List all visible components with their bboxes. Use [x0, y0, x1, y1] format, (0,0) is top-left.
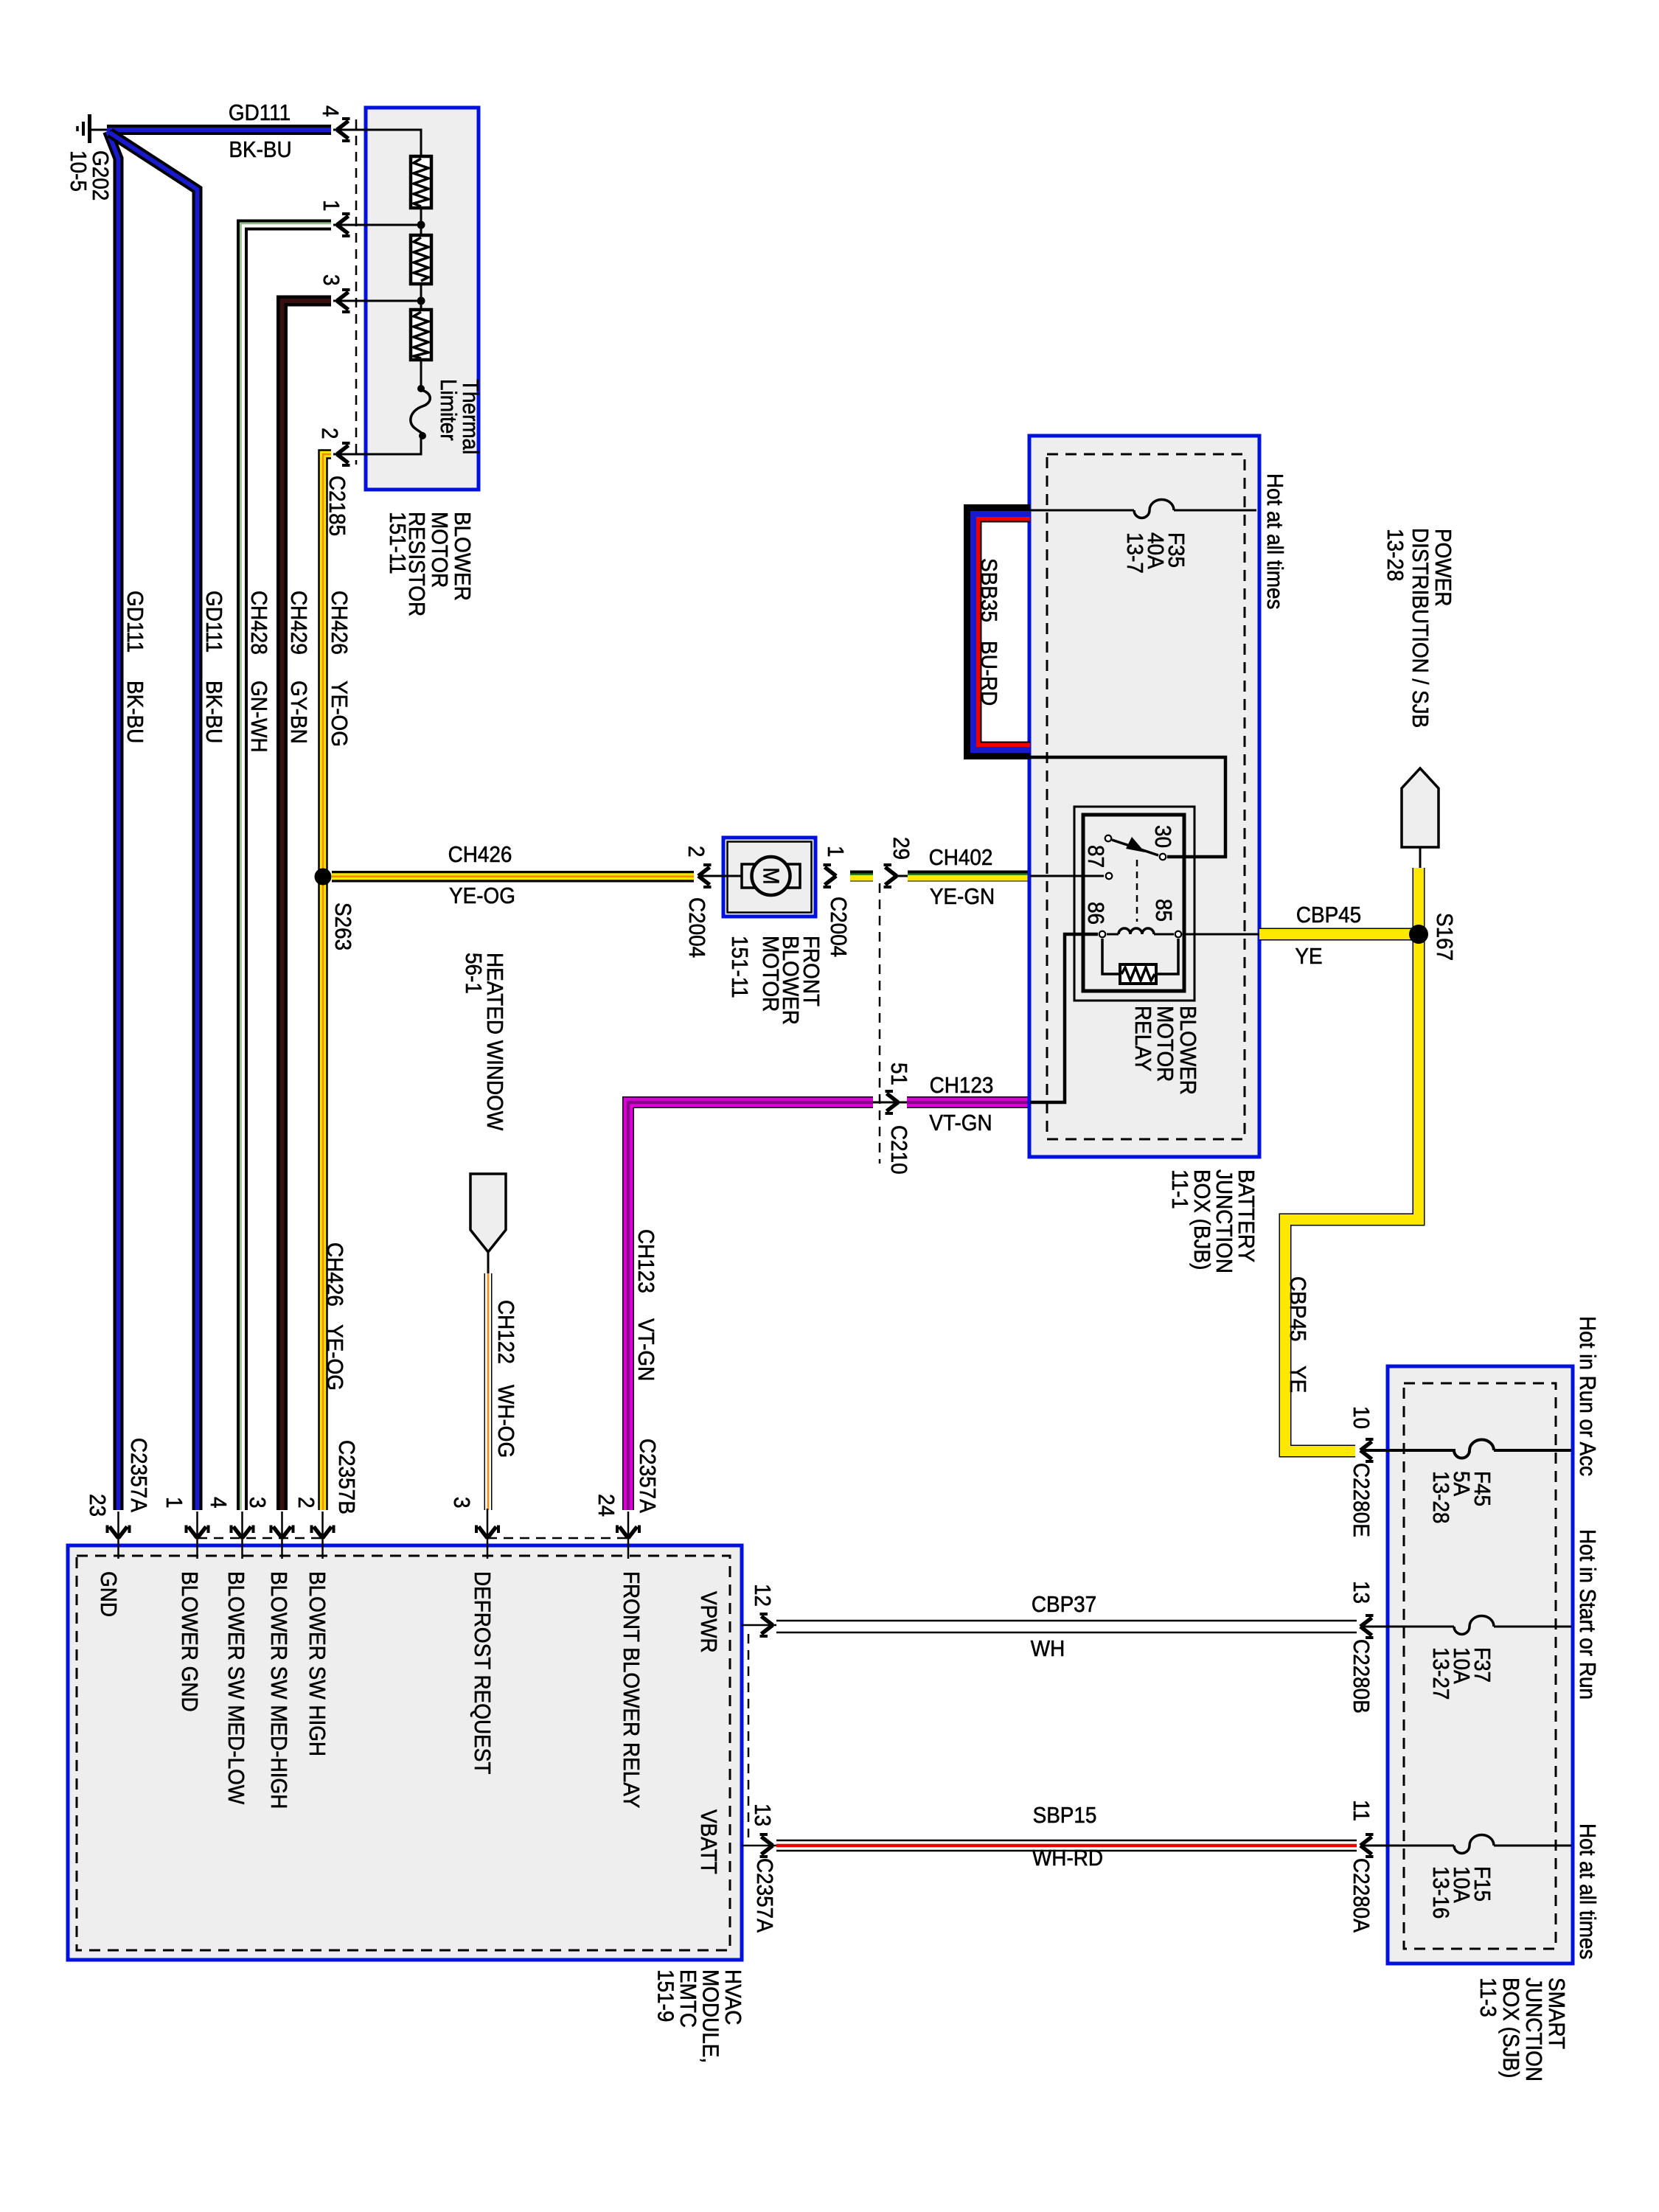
wire CH123 to relay coil 86: [1030, 934, 1098, 1102]
labels along CH123 vertical: [633, 1229, 661, 1513]
svg-text:HVAC: HVAC: [720, 1969, 746, 2025]
svg-text:S263: S263: [330, 902, 356, 950]
motor symbol M: [742, 857, 800, 895]
svg-text:11-3: 11-3: [1475, 1978, 1501, 2017]
HVAC pin 1 arrow BLOWER GND: [187, 1526, 209, 1539]
svg-text:GY-BN: GY-BN: [286, 681, 312, 744]
fuse F35 element: [1134, 500, 1174, 518]
battery junction box BJB: [1029, 436, 1259, 1157]
svg-text:BLOWER: BLOWER: [450, 512, 476, 601]
dashed connector pin3 to pin24: [487, 1537, 628, 1540]
svg-text:C2280B: C2280B: [1349, 1639, 1374, 1714]
HVAC pin 4 arrow BLOWER SW MED-LOW: [232, 1526, 254, 1539]
relay blade-coil dashed link: [1136, 860, 1138, 922]
svg-text:BLOWER SW HIGH: BLOWER SW HIGH: [305, 1571, 330, 1756]
svg-text:151-11: 151-11: [385, 512, 411, 574]
HVAC inner dashed boundary: [77, 1556, 730, 1950]
svg-text:POWER: POWER: [1430, 529, 1456, 606]
svg-text:YE: YE: [1295, 944, 1322, 970]
svg-text:VPWR: VPWR: [696, 1591, 722, 1653]
relay coil: [1107, 928, 1174, 934]
resistor pin 1 arrow and lead: [333, 224, 421, 226]
wire CH428 GN-WH vertical to HVAC pin 4: [241, 223, 332, 1510]
labels CH122 WH-OG: [493, 1300, 519, 1458]
svg-text:Hot in Run or Acc: Hot in Run or Acc: [1575, 1316, 1601, 1476]
power distribution label: [1382, 528, 1456, 728]
svg-text:10: 10: [1349, 1406, 1374, 1429]
resistor element R1: [411, 156, 431, 208]
HVAC pin 2 arrow BLOWER SW HIGH: [312, 1526, 334, 1539]
heated window feed symbol: [470, 1174, 506, 1275]
svg-text:VT-GN: VT-GN: [633, 1318, 659, 1381]
svg-text:MODULE,: MODULE,: [698, 1969, 723, 2063]
svg-text:2: 2: [684, 846, 709, 858]
SJB name label: [1475, 1978, 1570, 2081]
fuse F37 labels: [1428, 1647, 1495, 1700]
svg-text:3: 3: [245, 1497, 271, 1509]
smart junction box SJB: [1388, 1366, 1573, 1964]
svg-text:13: 13: [1349, 1581, 1374, 1604]
resistor element R2: [411, 235, 431, 284]
relay blade: [1112, 837, 1158, 855]
svg-text:GD111: GD111: [122, 591, 148, 653]
svg-text:30: 30: [1150, 825, 1176, 848]
connector pin 29 arrow: [884, 865, 897, 887]
svg-text:CH426: CH426: [327, 591, 352, 655]
svg-text:13-28: 13-28: [1382, 529, 1408, 581]
svg-text:WH: WH: [1031, 1636, 1065, 1662]
svg-text:MOTOR: MOTOR: [427, 512, 453, 588]
svg-text:SBB35: SBB35: [976, 558, 1002, 622]
svg-text:Hot in Start or Run: Hot in Start or Run: [1575, 1529, 1601, 1700]
svg-text:CBP45: CBP45: [1296, 902, 1361, 928]
svg-text:GD111: GD111: [229, 100, 291, 126]
svg-text:YE: YE: [1285, 1366, 1311, 1393]
svg-text:1: 1: [319, 200, 344, 212]
svg-text:MOTOR: MOTOR: [758, 936, 784, 1012]
svg-text:86: 86: [1083, 902, 1109, 925]
svg-text:3: 3: [449, 1497, 475, 1509]
svg-text:11: 11: [1349, 1800, 1374, 1821]
SJB pin 13 arrow: [1360, 1615, 1374, 1638]
svg-text:C2185: C2185: [324, 476, 350, 536]
connector dashed line at resistor: [355, 119, 358, 465]
svg-text:4: 4: [318, 105, 344, 117]
svg-text:C2280A: C2280A: [1349, 1858, 1374, 1933]
svg-text:YE-OG: YE-OG: [322, 1324, 348, 1391]
svg-text:RELAY: RELAY: [1130, 1006, 1156, 1072]
fuse F35 40A lead: [1030, 509, 1134, 512]
svg-text:GD111: GD111: [201, 591, 227, 653]
heated window label: [461, 953, 508, 1130]
svg-text:C2357A: C2357A: [635, 1439, 661, 1513]
svg-text:S167: S167: [1432, 913, 1458, 961]
svg-text:1: 1: [823, 846, 849, 858]
wire CH122 WH-OG: [484, 1273, 493, 1510]
BJB inner dashed boundary: [1047, 454, 1245, 1139]
svg-text:WH-RD: WH-RD: [1032, 1846, 1103, 1871]
svg-text:85: 85: [1151, 899, 1177, 922]
dashed connector line C2357 right: [748, 1634, 750, 1837]
svg-text:VT-GN: VT-GN: [929, 1110, 992, 1136]
wire GD111 BK-BU horizontal to resistor pin 4: [107, 125, 331, 135]
wire SBB35 to relay pin 30: [1030, 757, 1225, 857]
svg-text:BLOWER SW MED-LOW: BLOWER SW MED-LOW: [223, 1571, 249, 1804]
BJB name label: [1167, 1169, 1259, 1273]
svg-text:13-27: 13-27: [1428, 1647, 1454, 1700]
wire CH426 YE-OG horizontal S263 to motor: [332, 871, 694, 883]
svg-text:FRONT BLOWER RELAY: FRONT BLOWER RELAY: [619, 1571, 644, 1809]
svg-text:YE-GN: YE-GN: [930, 884, 995, 910]
relay blade pivot: [1105, 835, 1112, 842]
svg-text:C2357A: C2357A: [126, 1438, 152, 1512]
relay parallel resistor: [1102, 939, 1178, 984]
resistor pin 3 arrow and lead: [333, 300, 421, 302]
wire GD111 vertical to HVAC pin 23: [108, 131, 119, 1510]
svg-text:Limiter: Limiter: [436, 379, 462, 441]
relay coil terminal 86: [1099, 931, 1106, 938]
wire CH429 GY-BN vertical to HVAC pin 3: [282, 301, 332, 1510]
svg-text:GND: GND: [96, 1571, 122, 1617]
wire CH402 to contact 87: [1030, 875, 1104, 877]
svg-text:SMART: SMART: [1544, 1978, 1570, 2049]
wire label CH426 YE-OG lower run: [322, 1242, 348, 1391]
svg-text:C2357B: C2357B: [334, 1440, 360, 1514]
wire R1 to R2, junction pin1: [420, 208, 422, 235]
resistor pin 2 arrow and lead: [333, 437, 421, 454]
wire CBP45 YE from BJB to S167: [1259, 928, 1419, 941]
SJB pin 11 arrow: [1360, 1834, 1374, 1857]
connector C2004 pin 1 arrow: [824, 865, 837, 887]
svg-text:JUNCTION: JUNCTION: [1521, 1978, 1547, 2081]
svg-text:CH123: CH123: [633, 1229, 659, 1293]
HVAC pin 3 arrow DEFROST REQUEST: [476, 1526, 498, 1539]
relay name label: [1130, 1006, 1201, 1095]
fuse F35 labels: [1122, 532, 1189, 574]
svg-text:CH429: CH429: [286, 591, 312, 655]
svg-text:BK-BU: BK-BU: [122, 681, 148, 743]
svg-text:C2357A: C2357A: [752, 1858, 778, 1933]
svg-text:C2280E: C2280E: [1349, 1463, 1374, 1537]
wire R3 to thermal limiter: [420, 360, 422, 389]
relay coil output to CBP45: [1183, 933, 1259, 936]
svg-text:BU-RD: BU-RD: [976, 641, 1002, 706]
svg-text:2: 2: [317, 428, 343, 439]
resistor element R3: [411, 310, 431, 360]
svg-text:C2004: C2004: [684, 897, 710, 958]
svg-text:11-1: 11-1: [1167, 1169, 1193, 1209]
wire CH402 YE-GN to BJB: [908, 874, 1030, 877]
svg-text:12: 12: [750, 1584, 776, 1607]
svg-text:13-16: 13-16: [1428, 1866, 1454, 1919]
HVAC pin 3 arrow BLOWER SW MED-HIGH: [271, 1526, 293, 1539]
front blower motor box: [723, 838, 815, 917]
resistor box name: [385, 512, 476, 616]
svg-text:EMTC: EMTC: [675, 1969, 701, 2028]
svg-text:CH122: CH122: [493, 1300, 519, 1364]
resistor internal chain wire: [333, 130, 421, 156]
fuse F45 element: [1454, 1439, 1494, 1458]
HVAC module name: [653, 1969, 745, 2063]
wire CH426 YE-OG vertical resistor pin2 to HVAC pin 2: [323, 454, 331, 1510]
SJB pin 10 arrow: [1360, 1439, 1374, 1461]
dashed connector C2357B: [198, 1537, 322, 1540]
HVAC pin 24 arrow FRONT BLOWER RELAY: [617, 1526, 639, 1539]
labels SBB35 BU-RD: [976, 558, 1002, 706]
svg-text:CBP45: CBP45: [1285, 1276, 1311, 1341]
svg-text:YE-OG: YE-OG: [327, 681, 352, 747]
wire CH123 VT-GN from HVAC pin 24 up and right: [628, 1102, 873, 1510]
svg-text:SBP15: SBP15: [1033, 1803, 1097, 1829]
svg-text:CH402: CH402: [929, 845, 993, 871]
wire CH123 VT-GN right segment to BJB: [907, 1096, 1030, 1108]
SJB inner dashed boundary: [1404, 1383, 1556, 1949]
wire SBB35 BU-RD loop: [967, 508, 1031, 757]
svg-text:C210: C210: [886, 1125, 912, 1175]
wire CBP37 WH to SJB: [776, 1621, 1357, 1632]
svg-text:WH-OG: WH-OG: [493, 1385, 519, 1458]
svg-text:CBP37: CBP37: [1032, 1592, 1096, 1618]
svg-text:BK-BU: BK-BU: [201, 681, 227, 743]
splice S167: [1409, 925, 1428, 944]
HVAC module box: [68, 1545, 742, 1960]
svg-text:24: 24: [594, 1494, 619, 1517]
svg-text:CH428: CH428: [246, 591, 272, 655]
svg-text:1: 1: [161, 1497, 187, 1509]
svg-text:Hot at all times: Hot at all times: [1575, 1823, 1601, 1959]
svg-text:13-7: 13-7: [1122, 532, 1148, 574]
svg-text:CH426: CH426: [448, 842, 512, 868]
svg-text:CH123: CH123: [930, 1073, 994, 1099]
relay contact 87: [1106, 873, 1113, 880]
svg-text:151-9: 151-9: [653, 1969, 678, 2022]
motor name label: [727, 936, 824, 1025]
svg-text:GN-WH: GN-WH: [246, 681, 272, 753]
svg-text:151-11: 151-11: [727, 936, 753, 998]
svg-text:CH426: CH426: [322, 1242, 348, 1307]
blower motor relay outer box: [1074, 807, 1194, 1001]
fuse F15 element: [1454, 1835, 1494, 1854]
svg-text:29: 29: [888, 837, 914, 860]
svg-text:87: 87: [1083, 845, 1109, 868]
svg-text:VBATT: VBATT: [696, 1809, 722, 1874]
splice S263: [315, 869, 332, 886]
wire CBP45 YE vertical and to SJB pin 10: [1285, 868, 1419, 1451]
svg-text:2: 2: [293, 1497, 319, 1509]
wire CH402 stub between C2004 and C2280: [850, 874, 873, 877]
power distribution feed symbol: [1402, 768, 1439, 869]
svg-text:51: 51: [886, 1062, 912, 1085]
fuse F45 labels: [1428, 1471, 1495, 1523]
connector pin 51 arrow: [873, 1102, 907, 1104]
svg-text:23: 23: [85, 1494, 111, 1517]
HVAC pin 23 arrow GND: [108, 1526, 130, 1539]
svg-text:4: 4: [206, 1497, 232, 1509]
svg-text:3: 3: [319, 274, 344, 286]
wire labels on vertical runs (top): [122, 591, 352, 753]
svg-text:56-1: 56-1: [461, 953, 487, 994]
wire GD111 diagonal+vertical to HVAC pin 1: [110, 133, 198, 1510]
blower motor resistor box 151-11: [366, 108, 479, 490]
svg-text:BK-BU: BK-BU: [229, 137, 291, 163]
connector C2004 pin 2 arrow: [698, 865, 712, 887]
svg-text:Hot at all times: Hot at all times: [1262, 473, 1288, 609]
ground G202: [77, 114, 108, 143]
svg-text:C2004: C2004: [826, 897, 852, 957]
svg-text:DISTRIBUTION / SJB: DISTRIBUTION / SJB: [1408, 528, 1433, 728]
blower motor relay inner box: [1083, 815, 1184, 991]
svg-text:BLOWER: BLOWER: [1175, 1006, 1201, 1095]
node G202 label: [66, 150, 114, 201]
relay coil terminal 85: [1175, 931, 1182, 938]
svg-text:10-5: 10-5: [66, 150, 91, 192]
wire R2 to R3, junction pin3: [420, 284, 422, 310]
svg-text:BLOWER GND: BLOWER GND: [177, 1571, 203, 1712]
wire SBP15 WH-RD to SJB: [776, 1840, 1357, 1851]
dashed connector line C2004/C210: [879, 883, 881, 1164]
resistor pin 4 arrow: [337, 119, 350, 141]
fuse F15 labels: [1428, 1866, 1495, 1919]
thermal limiter: [411, 385, 430, 439]
svg-text:YE-OG: YE-OG: [449, 883, 515, 909]
svg-text:BOX (SJB): BOX (SJB): [1498, 1978, 1524, 2078]
svg-text:13: 13: [750, 1804, 776, 1826]
fuse F37 element: [1454, 1616, 1494, 1635]
motor lead lines: [700, 875, 747, 877]
svg-text:DEFROST REQUEST: DEFROST REQUEST: [470, 1571, 495, 1774]
relay contact 30: [1160, 854, 1166, 860]
labels CBP45 YE vertical: [1285, 1276, 1311, 1393]
svg-text:BLOWER SW MED-HIGH: BLOWER SW MED-HIGH: [266, 1571, 292, 1809]
svg-text:M: M: [758, 867, 784, 884]
svg-text:13-28: 13-28: [1428, 1471, 1454, 1523]
